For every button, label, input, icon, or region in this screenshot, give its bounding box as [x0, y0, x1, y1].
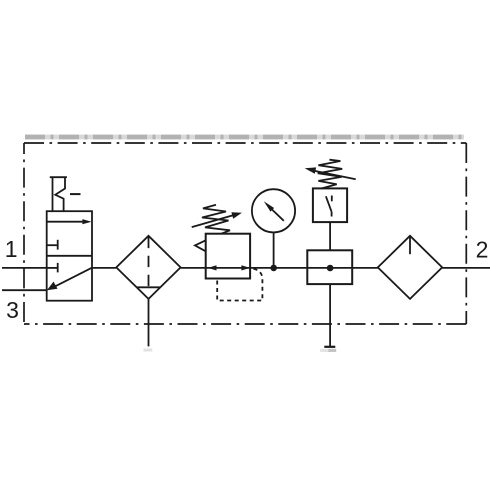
- svg-text:2: 2: [476, 236, 489, 262]
- svg-text:1: 1: [5, 236, 18, 262]
- svg-text:3: 3: [6, 297, 19, 323]
